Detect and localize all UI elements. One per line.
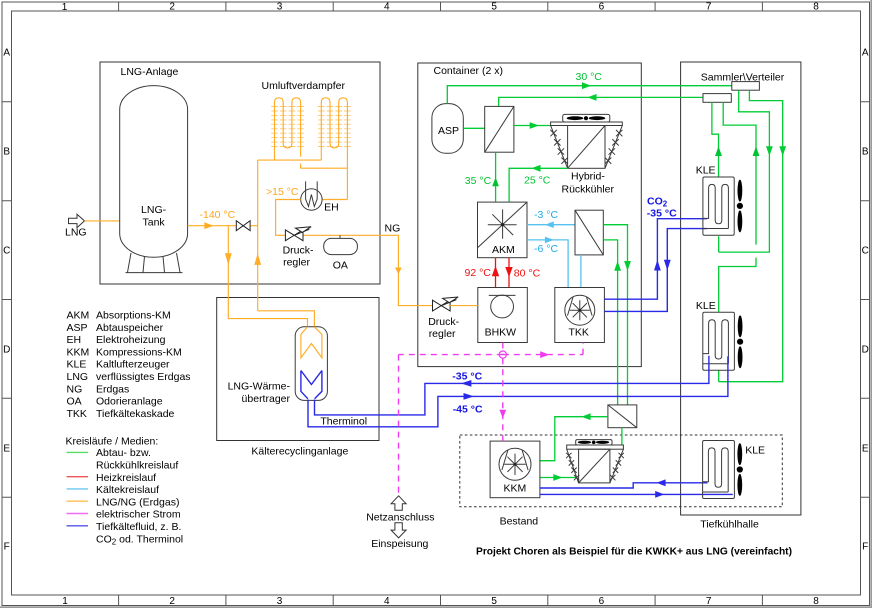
LNG tank vessel xyxy=(120,86,188,258)
svg-text:Heizkreislauf: Heizkreislauf xyxy=(96,472,156,484)
OA odoriser vessel xyxy=(324,238,358,254)
TKK box xyxy=(555,288,605,343)
wire HX2 upper green out xyxy=(603,225,627,405)
top ruler ticks xyxy=(119,2,763,11)
KLE3 fan blades xyxy=(737,443,742,465)
HX2 plate heat exchanger xyxy=(575,210,603,255)
wire BHKW power output down xyxy=(502,343,504,355)
air cooler right skirt xyxy=(610,449,624,483)
hybrid cooler core xyxy=(568,126,605,169)
legend line green xyxy=(67,451,89,453)
svg-text:LNG: LNG xyxy=(67,371,89,383)
svg-text:LNG/NG (Erdgas): LNG/NG (Erdgas) xyxy=(96,496,179,508)
green flow arrow return xyxy=(587,94,596,101)
svg-text:8: 8 xyxy=(813,2,819,13)
wire TKK to HX2 xyxy=(580,255,582,288)
svg-text:C: C xyxy=(862,246,869,257)
svg-text:-35 °C: -35 °C xyxy=(452,371,482,383)
right ruler ticks xyxy=(861,102,870,497)
svg-text:elektrischer Strom: elektrischer Strom xyxy=(96,509,181,521)
wire TKK CO2 return xyxy=(604,229,707,312)
evaporator coil fins group 1 xyxy=(271,107,304,147)
wire KLE1 top to Sammler xyxy=(712,102,719,177)
wire Verteiler to KLE2 bottom xyxy=(719,90,783,382)
svg-text:KKM: KKM xyxy=(67,346,90,358)
svg-text:Kälterecyclinganlage: Kälterecyclinganlage xyxy=(251,446,348,458)
Container enclosure box xyxy=(418,63,642,367)
svg-text:CO2 od. Therminol: CO2 od. Therminol xyxy=(96,533,183,546)
wire regulator to NG corner xyxy=(303,235,433,305)
LNG-Anlage enclosure box xyxy=(100,62,380,284)
svg-text:Kältekreislauf: Kältekreislauf xyxy=(96,484,159,496)
svg-text:AKM: AKM xyxy=(492,244,515,256)
wire manifold A inlet xyxy=(258,159,322,161)
wire power to KKM xyxy=(502,358,504,441)
svg-text:Tiefkältefluid, z. B.: Tiefkältefluid, z. B. xyxy=(96,521,181,533)
svg-text:TKK: TKK xyxy=(67,408,87,420)
svg-text:KLE: KLE xyxy=(67,359,87,371)
svg-text:35 °C: 35 °C xyxy=(465,175,492,187)
svg-text:3: 3 xyxy=(277,2,283,13)
Druckregler 1 valve symbol xyxy=(285,227,311,241)
svg-text:2: 2 xyxy=(169,2,175,13)
svg-text:-6 °C: -6 °C xyxy=(534,243,558,255)
svg-text:KLE: KLE xyxy=(696,165,716,177)
svg-text:LNG-Anlage: LNG-Anlage xyxy=(121,66,179,78)
svg-text:LNG-: LNG- xyxy=(141,204,167,216)
svg-text:Tank: Tank xyxy=(143,216,166,228)
AKM star symbol xyxy=(478,202,528,248)
svg-text:EH: EH xyxy=(324,202,339,214)
svg-text:80 °C: 80 °C xyxy=(514,268,541,280)
wire AKM chilled -6C to TKK xyxy=(527,240,568,288)
svg-text:6: 6 xyxy=(599,2,605,13)
svg-text:8: 8 xyxy=(813,596,819,607)
orange flow arrow down xyxy=(225,253,232,265)
wire KKM to KLE3 supply xyxy=(540,493,733,495)
air cooler left skirt xyxy=(567,449,579,483)
svg-text:-45 °C: -45 °C xyxy=(453,404,483,416)
HX3 plate heat exchanger xyxy=(608,405,637,428)
Kaelterecyclinganlage enclosure box xyxy=(217,298,379,441)
wire return header to HX1 top xyxy=(499,97,703,106)
right ruler letters xyxy=(862,48,869,553)
left ruler ticks xyxy=(2,102,12,497)
svg-text:F: F xyxy=(4,542,10,553)
svg-text:Abtau- bzw.: Abtau- bzw. xyxy=(96,447,151,459)
svg-text:Projekt Choren als Beispiel fü: Projekt Choren als Beispiel für die KWKK… xyxy=(476,546,792,558)
svg-text:Druck-: Druck- xyxy=(283,244,314,256)
orange flow arrow on tank outlet xyxy=(204,222,213,229)
legend line cyan xyxy=(67,488,89,490)
wire HX3 to KKM xyxy=(540,417,608,461)
svg-text:LNG-Wärme-: LNG-Wärme- xyxy=(228,381,291,393)
svg-text:OA: OA xyxy=(67,396,82,408)
svg-text:Hybrid-: Hybrid- xyxy=(571,170,605,182)
EH electric heater circle xyxy=(301,189,322,210)
svg-text:Erdgas: Erdgas xyxy=(96,383,129,395)
svg-text:1: 1 xyxy=(62,596,68,607)
svg-text:C: C xyxy=(3,246,10,257)
svg-text:4: 4 xyxy=(384,596,390,607)
KLE3 cold air unit box xyxy=(703,441,735,499)
LNG inlet arrow symbol xyxy=(69,214,85,227)
KLE2 coil xyxy=(703,320,729,364)
wire KLE2 top to Sammler (with crossing gap) xyxy=(719,102,756,312)
svg-text:>15 °C: >15 °C xyxy=(266,186,299,198)
air cooler core xyxy=(579,449,610,483)
hybrid cooler fan blades xyxy=(567,116,584,120)
bottom ruler numbers xyxy=(62,596,819,607)
svg-text:AKM: AKM xyxy=(67,310,90,322)
bottom ruler ticks xyxy=(119,595,763,606)
orange flow arrow up xyxy=(254,253,261,265)
OA stub xyxy=(339,235,341,238)
green flow arrow 35C up xyxy=(492,177,499,186)
svg-text:Kaltlufterzeuger: Kaltlufterzeuger xyxy=(96,359,170,371)
svg-text:A: A xyxy=(862,48,869,59)
wire riser from heat exchanger up to evaporator manifold xyxy=(258,160,315,327)
svg-text:BHKW: BHKW xyxy=(485,327,517,339)
upper manifold (Verteiler) xyxy=(732,82,760,91)
svg-text:E: E xyxy=(862,444,869,455)
svg-text:Bestand: Bestand xyxy=(500,516,539,528)
svg-text:92 °C: 92 °C xyxy=(465,267,492,279)
hybrid cooler fan housing xyxy=(563,114,610,122)
svg-text:E: E xyxy=(3,444,10,455)
KLE1 fan blades xyxy=(738,180,743,202)
evaporator coil group 2 xyxy=(321,98,347,168)
svg-text:7: 7 xyxy=(706,2,712,13)
KLE2 fan blades xyxy=(738,315,743,337)
wire therminol -35C return xyxy=(315,356,709,415)
BHKW box xyxy=(478,288,528,343)
svg-text:1: 1 xyxy=(62,2,68,13)
svg-text:übertrager: übertrager xyxy=(242,393,291,405)
svg-text:ASP: ASP xyxy=(438,125,459,137)
svg-text:Tiefkältekaskade: Tiefkältekaskade xyxy=(96,408,175,420)
svg-text:6: 6 xyxy=(599,596,605,607)
svg-text:B: B xyxy=(862,147,869,158)
svg-text:regler: regler xyxy=(429,328,456,340)
Einspeisung arrow xyxy=(391,523,406,538)
svg-text:Druck-: Druck- xyxy=(428,316,459,328)
wire HX1 bottom to AKM (35C) xyxy=(495,152,497,201)
green flow arrow 25C xyxy=(531,165,540,172)
wire therminol -45C supply xyxy=(308,356,728,427)
svg-text:KKM: KKM xyxy=(504,483,527,495)
svg-text:Container (2 x): Container (2 x) xyxy=(434,65,503,77)
legend line magenta xyxy=(67,513,89,515)
svg-text:A: A xyxy=(3,48,10,59)
wire power bus to grid xyxy=(399,355,503,494)
svg-text:Absorptions-KM: Absorptions-KM xyxy=(96,310,171,322)
wire air cooler to HX3 xyxy=(621,428,623,445)
KLE1 coil xyxy=(703,184,729,228)
svg-text:5: 5 xyxy=(491,596,497,607)
wire down to LNG heat exchanger xyxy=(228,226,307,328)
svg-text:KLE: KLE xyxy=(696,300,716,312)
KLE3 coil xyxy=(703,448,729,492)
svg-text:3: 3 xyxy=(277,596,283,607)
svg-text:4: 4 xyxy=(384,2,390,13)
wire EH outlet to pressure regulator xyxy=(276,200,301,236)
svg-text:Therminol: Therminol xyxy=(320,415,367,427)
wire hybrid outlet to AKM (25C) xyxy=(509,168,567,201)
svg-text:D: D xyxy=(3,345,10,356)
wire HX1 to hybrid cooler xyxy=(514,125,551,127)
legend texts xyxy=(96,447,183,546)
power node xyxy=(499,351,506,358)
air cooler top plate xyxy=(567,445,624,449)
svg-text:Abtauspeicher: Abtauspeicher xyxy=(96,322,164,334)
svg-text:7: 7 xyxy=(706,596,712,607)
svg-text:Kreisläufe / Medien:: Kreisläufe / Medien: xyxy=(66,436,159,448)
magenta flow arrow to TKK xyxy=(540,351,549,358)
wire LNG inlet to tank xyxy=(85,220,120,222)
svg-text:B: B xyxy=(3,147,10,158)
svg-text:EH: EH xyxy=(67,334,82,346)
KLE1 cold air unit box xyxy=(703,177,734,235)
abbreviation list xyxy=(67,310,191,420)
LNG tank legs xyxy=(126,253,183,273)
HX1 plate heat exchanger xyxy=(485,106,514,152)
ASP storage vessel xyxy=(432,104,463,154)
valve on tank outlet xyxy=(236,221,250,231)
wire BHKW to AKM return 80C xyxy=(508,258,510,288)
wire TKK CO2 supply xyxy=(604,219,707,300)
svg-text:Tiefkühlhalle: Tiefkühlhalle xyxy=(700,519,759,531)
Sammler/Verteiler + Tiefkuehlhalle tall box xyxy=(681,62,801,515)
hybrid cooler left skirt with fins xyxy=(551,126,568,169)
wire ASP to HX1 xyxy=(463,127,484,129)
svg-text:Einspeisung: Einspeisung xyxy=(371,538,428,550)
svg-text:OA: OA xyxy=(333,259,348,271)
svg-text:-3 °C: -3 °C xyxy=(534,209,558,221)
green flow arrow to hybrid xyxy=(530,122,539,129)
wire tank outlet horizontal xyxy=(188,225,258,227)
svg-text:Odorieranlage: Odorieranlage xyxy=(96,396,163,408)
svg-text:-140 °C: -140 °C xyxy=(200,209,236,221)
Druckregler 2 valve symbol xyxy=(433,297,459,311)
lower manifold (Sammler) xyxy=(703,94,731,103)
AKM absorption chiller box xyxy=(478,202,528,258)
svg-text:regler: regler xyxy=(283,257,310,269)
svg-text:Elektroheizung: Elektroheizung xyxy=(96,334,166,346)
legend line red xyxy=(67,476,89,478)
green flow arrow 30C xyxy=(582,82,591,89)
evaporator coil group 1 xyxy=(275,98,301,168)
svg-text:30 °C: 30 °C xyxy=(576,71,603,83)
evaporator coil fins group 2 xyxy=(318,107,351,147)
KKM compressor circle xyxy=(499,448,531,480)
air cooler fan housing xyxy=(576,440,612,445)
BHKW generator circle xyxy=(491,295,514,318)
wire regulator2 to BHKW xyxy=(450,305,478,307)
svg-text:KLE: KLE xyxy=(745,445,765,457)
svg-text:Netzanschluss: Netzanschluss xyxy=(366,512,434,524)
svg-text:NG: NG xyxy=(67,383,83,395)
svg-text:Kompressions-KM: Kompressions-KM xyxy=(96,346,182,358)
wire ASP top to 30C header xyxy=(447,86,732,104)
KKM box xyxy=(490,441,540,498)
wire manifold B outlet to EH xyxy=(301,168,348,199)
orange coil inside heat exchanger xyxy=(301,327,322,358)
top ruler numbers xyxy=(62,2,820,14)
legend line blue xyxy=(67,525,89,527)
svg-text:2: 2 xyxy=(169,596,175,607)
svg-text:Rückkühler: Rückkühler xyxy=(562,184,615,196)
legend line orange xyxy=(67,500,89,502)
wire AKM chilled -3C from HX2 xyxy=(527,224,575,226)
svg-text:Umluftverdampfer: Umluftverdampfer xyxy=(262,80,346,92)
svg-text:verflüssigtes Erdgas: verflüssigtes Erdgas xyxy=(96,371,191,383)
svg-text:Rückkühlkreislauf: Rückkühlkreislauf xyxy=(96,460,178,472)
wire HX2 lower green in xyxy=(603,240,617,405)
svg-text:LNG: LNG xyxy=(65,226,87,238)
wire power bus to TKK xyxy=(503,343,583,355)
wire KKM to air cooler xyxy=(540,477,577,479)
blue coil inside heat exchanger xyxy=(301,371,322,399)
left ruler letters xyxy=(3,48,10,553)
TKK compressor circle xyxy=(565,295,595,325)
hybrid cooler right skirt with fins xyxy=(605,126,622,169)
magenta flow arrow to KKM xyxy=(499,410,506,419)
Bestand dashed box xyxy=(460,435,783,507)
EH heater element leads xyxy=(306,181,318,206)
wire AKM to BHKW hot 92C xyxy=(495,258,497,288)
svg-text:TKK: TKK xyxy=(569,327,589,339)
svg-text:F: F xyxy=(862,542,868,553)
LNG-Waermeuebertrager vessel xyxy=(295,327,327,401)
orange flow arrow NG down xyxy=(395,268,402,275)
svg-text:D: D xyxy=(862,345,869,356)
svg-text:ASP: ASP xyxy=(67,322,88,334)
svg-text:-35 °C: -35 °C xyxy=(647,207,677,219)
KLE2 cold air unit box xyxy=(703,312,735,370)
hybrid cooler top plate xyxy=(551,122,623,126)
wire KKM to KLE3 return xyxy=(540,483,708,488)
wire Verteiler to KLE1 bottom xyxy=(719,90,770,252)
svg-text:NG: NG xyxy=(385,223,401,235)
svg-text:5: 5 xyxy=(491,2,497,13)
svg-text:25 °C: 25 °C xyxy=(524,175,551,187)
Netzanschluss arrow xyxy=(391,496,406,511)
